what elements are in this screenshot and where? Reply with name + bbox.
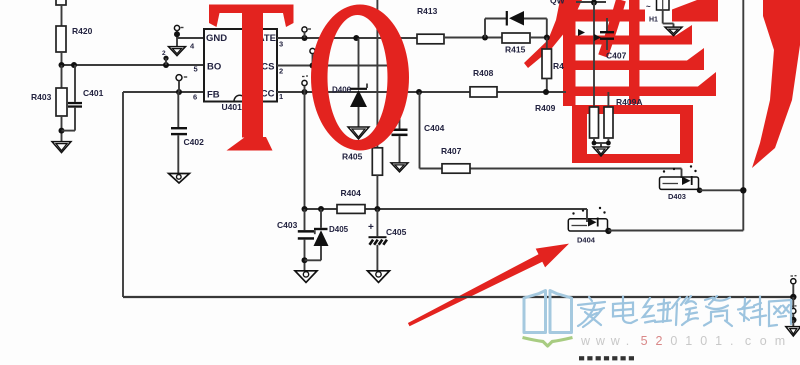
svg-text:w: w [580,334,591,348]
svg-text:o: o [760,334,767,348]
svg-text:6: 6 [193,92,197,101]
svg-text:2: 2 [656,334,663,348]
svg-text:2: 2 [162,50,166,57]
svg-text:R4: R4 [553,61,564,71]
svg-text:R409: R409 [535,103,556,113]
svg-text:QW: QW [550,0,566,6]
svg-text:5: 5 [641,334,648,348]
svg-text:m: m [775,334,785,348]
svg-text:1: 1 [279,92,283,101]
svg-text:1: 1 [715,334,722,348]
svg-text:GND: GND [206,33,227,44]
svg-text:D405: D405 [329,225,349,234]
svg-text:D404: D404 [577,236,596,245]
svg-text:~: ~ [646,2,651,11]
svg-text:H1: H1 [649,17,658,24]
svg-text:c: c [745,334,751,348]
svg-text:.: . [730,334,733,348]
svg-text:R409A: R409A [616,97,642,107]
svg-text:5: 5 [194,65,198,74]
svg-text:D406: D406 [332,86,352,95]
svg-text:R408: R408 [473,68,494,78]
svg-text:R415: R415 [505,45,526,55]
svg-text:R407: R407 [441,146,462,156]
svg-text:FB: FB [207,90,220,101]
svg-text:R404: R404 [341,188,362,198]
svg-text:CS: CS [261,62,274,73]
svg-text:3: 3 [279,40,283,49]
svg-text:C402: C402 [184,137,205,147]
svg-text:R405: R405 [342,152,363,162]
svg-text:BO: BO [207,62,221,73]
svg-text:0: 0 [670,334,677,348]
svg-text:0: 0 [700,334,707,348]
svg-text:+: + [368,222,374,233]
svg-text:w: w [610,334,621,348]
svg-text:R420: R420 [72,26,93,36]
svg-text:2: 2 [279,67,283,76]
svg-text:w: w [595,334,606,348]
svg-text:R413: R413 [417,6,438,16]
svg-text:D403: D403 [668,192,686,201]
svg-text:C405: C405 [386,227,407,237]
svg-text:U401: U401 [222,102,243,112]
svg-text:R403: R403 [31,92,52,102]
svg-text:.: . [626,334,629,348]
svg-text:1: 1 [685,334,692,348]
svg-text:C407: C407 [606,51,627,61]
svg-text:C403: C403 [277,220,298,230]
svg-text:C401: C401 [83,88,104,98]
svg-text:C404: C404 [424,123,445,133]
